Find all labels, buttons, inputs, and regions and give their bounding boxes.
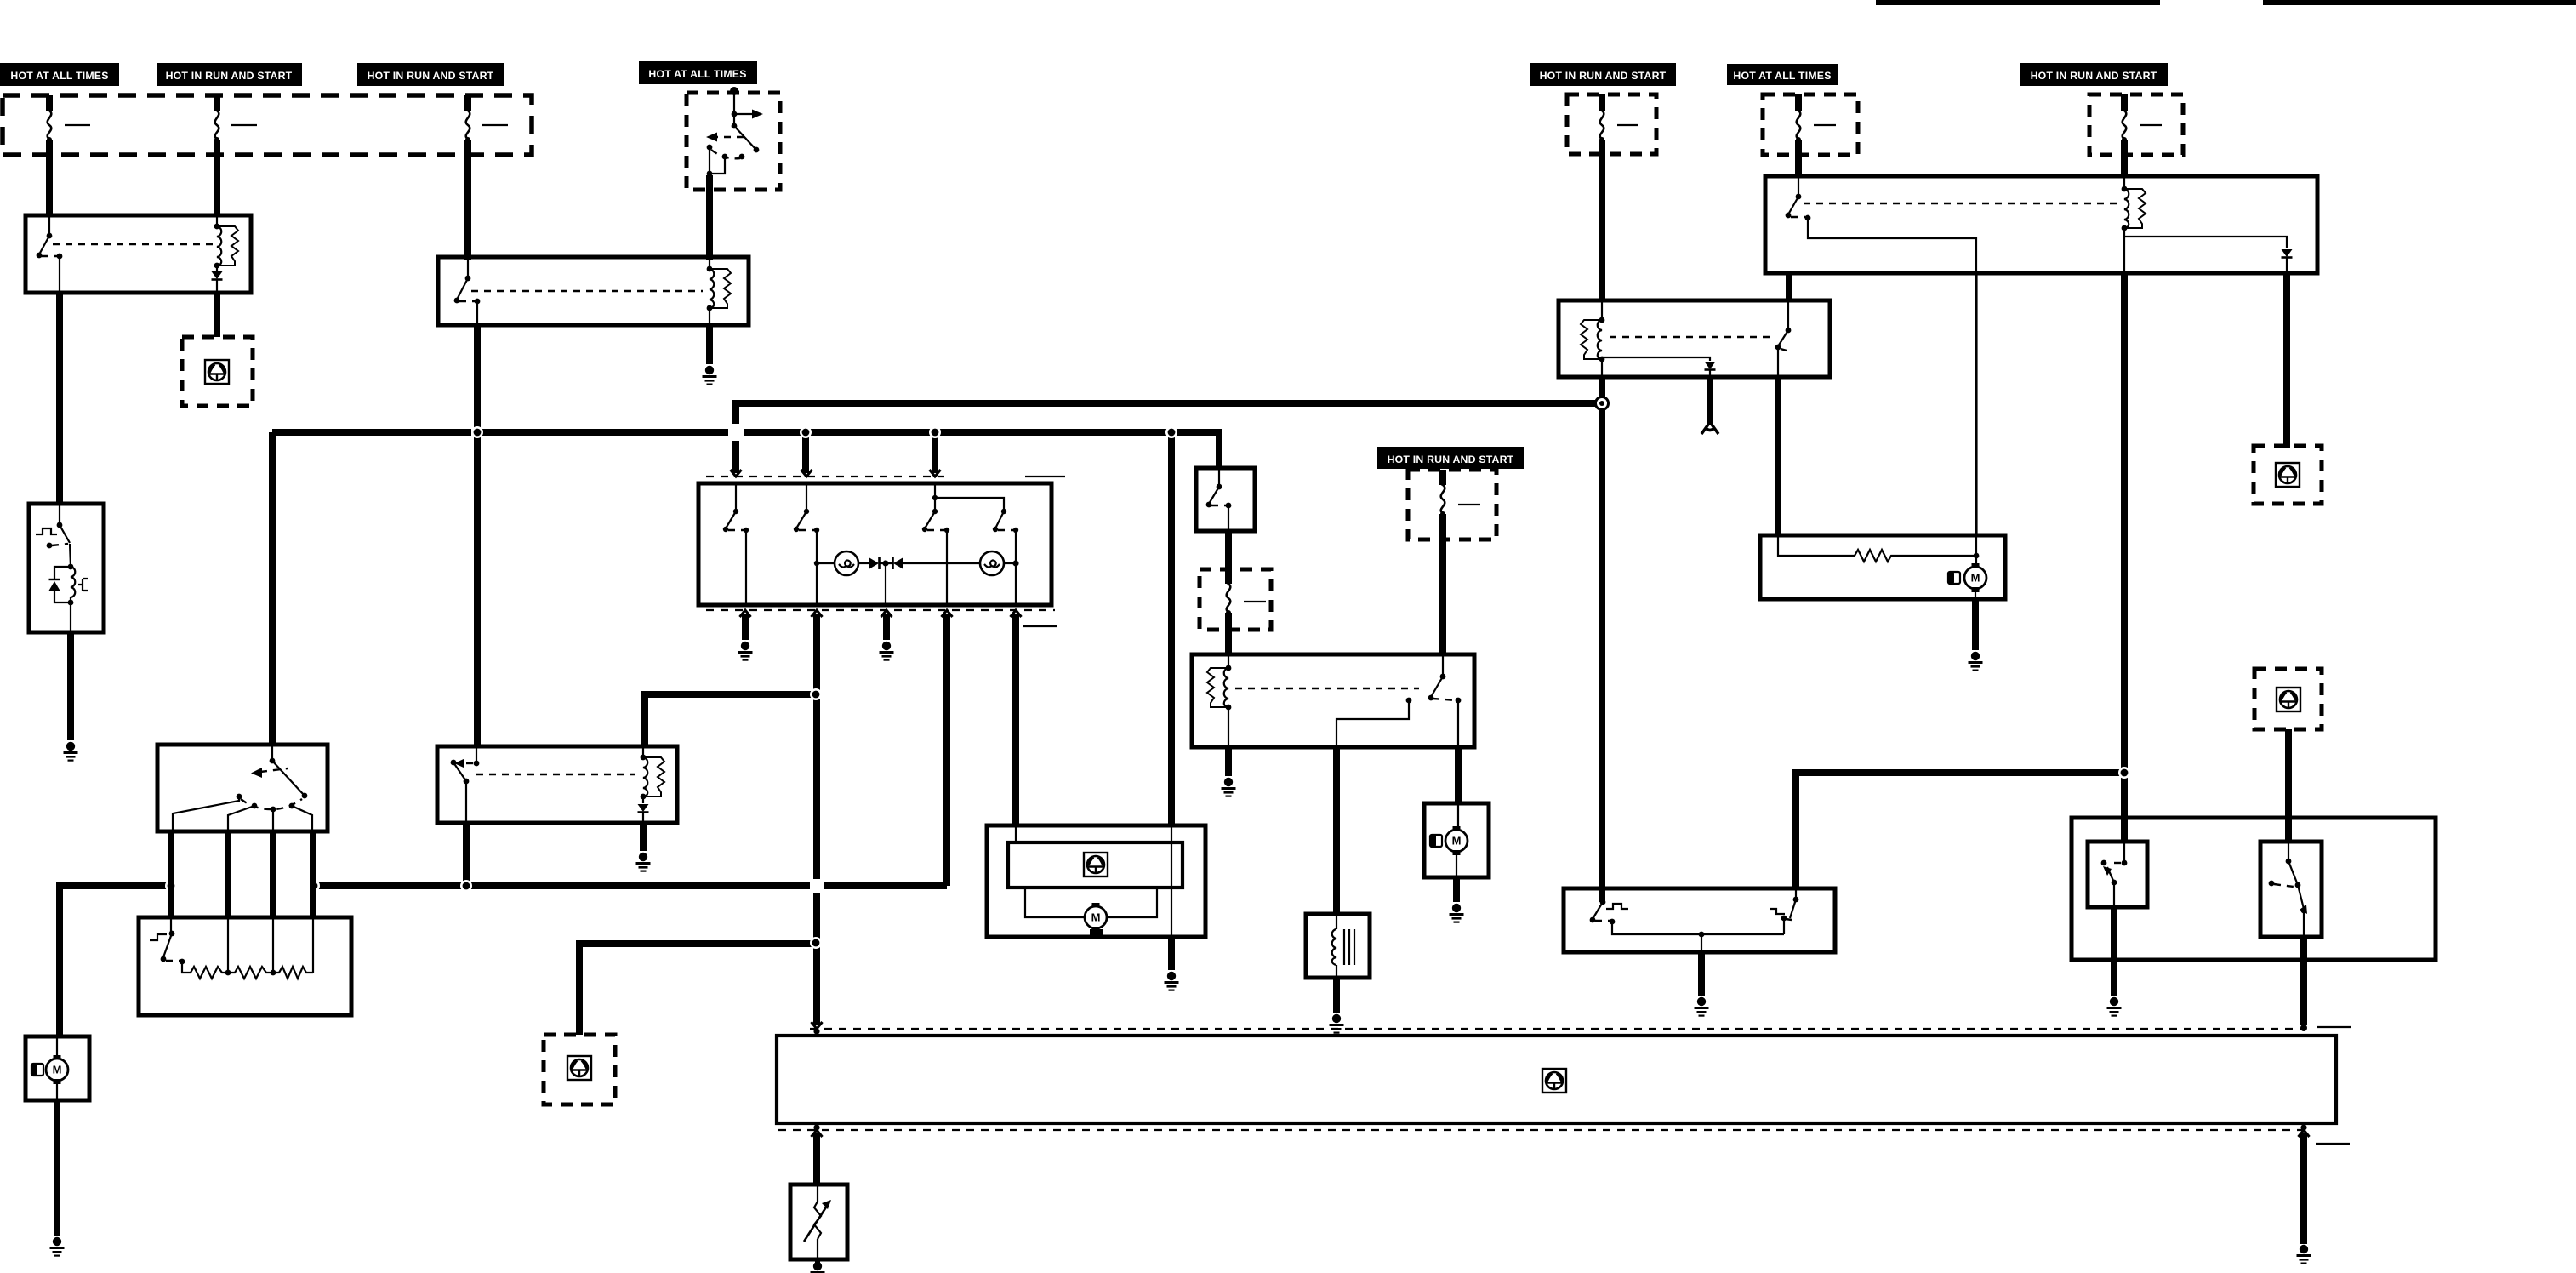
svg-text:HOT AT ALL TIMES: HOT AT ALL TIMES [1733, 70, 1831, 82]
wire K4 diode to splice arrow [1707, 377, 1713, 424]
connector symbol in lamp module [1084, 853, 1108, 876]
switch in K1 [37, 215, 63, 293]
coil of K4 (resistor on left) [1581, 300, 1604, 377]
wire bulkhead to ground (right) [2300, 1133, 2307, 1244]
fuse F8 (in-line dashed) [1200, 569, 1271, 630]
label HOT AT ALL TIMES (right) [1727, 64, 1838, 85]
dashed actuate link K2 [471, 290, 703, 292]
diode D2 (points left) [886, 557, 980, 569]
headlamp switch assembly box (right) [2072, 818, 2436, 960]
top pin header dashed line [706, 470, 1065, 477]
ground G14 [811, 1262, 825, 1273]
wire K4 coil to bus B1 junction (long) [1599, 377, 1605, 902]
junction B3 x201 [165, 880, 177, 892]
label HOT IN RUN AND START (left 2) [157, 63, 302, 86]
wire K2 coil to ground [706, 325, 713, 364]
svg-text:HOT IN RUN AND START: HOT IN RUN AND START [368, 70, 494, 82]
momentary switch in washer module [36, 504, 70, 548]
bullseye junction bus B1 / K4 wire [1596, 397, 1609, 410]
switch in governor module [451, 746, 480, 823]
title rule left [1876, 0, 2160, 5]
bottom pin header dashed line of turn box [706, 610, 1057, 626]
switch S2 in turn box [794, 483, 819, 605]
dashed actuate link governor [476, 774, 635, 775]
label line bulkhead lower right [2316, 1143, 2350, 1145]
wire fuse F7 to relay K3 switch [1439, 514, 1446, 654]
coil of K5 [2122, 176, 2293, 273]
fuse F4 (dashed box) [1567, 94, 1656, 154]
junction B3 x369 [308, 880, 320, 892]
ground G13 [2107, 997, 2122, 1017]
fuse F5 (dashed box) [1763, 94, 1858, 155]
inner panel of lamp module [1008, 842, 1183, 888]
ground G6 [50, 1237, 65, 1257]
bulkhead connector strip [777, 1036, 2336, 1123]
switch in K2 [454, 257, 481, 325]
wire solenoid to ground [1333, 978, 1340, 1013]
resistor run in wiper motor box [1778, 535, 1979, 567]
park/dome lamp module box (bottom left) [26, 1036, 89, 1100]
label HOT AT ALL TIMES (ignition) [639, 61, 757, 84]
feed stubs into lamp module [1016, 825, 1171, 937]
wire rotary sw out3 [270, 831, 276, 917]
wire fuse F6 to relay K5 coil [2121, 140, 2128, 176]
junction B3 x548 [460, 880, 472, 892]
bulkhead bottom dashed line [778, 1124, 2310, 1137]
ground G3 [738, 642, 753, 661]
wire fuse F5 to relay K5 switch [1795, 140, 1802, 176]
switch inside inner box 2 [2269, 842, 2307, 937]
junction on B2 at x947 [800, 426, 812, 438]
wire K3 to washer solenoid [1333, 747, 1340, 914]
title rule right [2263, 0, 2576, 5]
ignition switch dashed box [687, 87, 780, 190]
indicator lamp left [814, 551, 871, 575]
splice arrow symbol [1701, 422, 1718, 434]
diode branch of K4 [1602, 357, 1716, 377]
ground G8 [1222, 778, 1236, 797]
diode D1 (points right) [869, 557, 886, 569]
wire K3 to wiper park motor [1455, 747, 1462, 803]
motor in lamp module [1025, 888, 1157, 939]
pin marker at bulkhead top right [2300, 1025, 2351, 1031]
motor in wiper motor box [1948, 563, 1986, 599]
wire bulkhead to fuel sender [813, 1133, 820, 1185]
wire inner box2 to bulkhead connector [2300, 937, 2307, 1025]
switch in K5 [1786, 176, 1976, 273]
wire ignition to relay K2 coil [706, 190, 713, 260]
wire turn pin4 down to bus B3 [943, 614, 950, 886]
fuse F7 (below center label) [1408, 470, 1496, 539]
wire K5 diode to connector symbol [2283, 273, 2290, 448]
switch S3 in turn box [922, 483, 1004, 605]
washer solenoid box [1306, 914, 1370, 978]
wire turn pin2 down to bulkhead connector (long) [813, 614, 820, 1025]
wire brake box to ground [1698, 952, 1705, 996]
ground G11 [1969, 652, 1983, 671]
governor module box (intermittent wiper) [437, 746, 677, 823]
wiper motor assembly box (right) [1760, 535, 2005, 599]
wire connector box to pin2 wire [579, 944, 812, 1035]
switch S4 in turn box [993, 509, 1018, 605]
park motor box (center) [1424, 803, 1489, 877]
bus B2 (feed bus) [272, 432, 1219, 745]
svg-text:HOT AT ALL TIMES: HOT AT ALL TIMES [10, 70, 108, 82]
switch in K4 [1775, 300, 1792, 377]
wire K5 to relay K4 switch (stub) [1786, 273, 1792, 300]
wire K2 switch to governor module (long) [474, 325, 481, 746]
svg-text:HOT IN RUN AND START: HOT IN RUN AND START [1388, 454, 1514, 465]
connector symbol box (below dome line) [544, 1035, 615, 1105]
wire turn pin1 to ground [742, 614, 749, 640]
wire rotary sw out2 [225, 831, 231, 917]
wire inner box1 to ground [2111, 907, 2117, 996]
inner switch box 1 [2088, 842, 2147, 907]
wire fuel sender to ground [815, 1259, 820, 1264]
junction on B2 at x561 [471, 426, 483, 438]
wire K5 coil feed-through (long down) [2121, 273, 2128, 842]
junction on B2 at x1099 [929, 426, 941, 438]
relay K2 (center-left relay box) [438, 257, 749, 325]
wire park motor to ground [1453, 877, 1460, 902]
label HOT IN RUN AND START (right 2) [2020, 63, 2168, 86]
dashed actuate link K4 [1610, 336, 1775, 338]
wire K3 coil to ground [1225, 747, 1232, 776]
switch inside inner box 1 [2101, 842, 2128, 907]
wire switch box to fuse F8 [1225, 531, 1232, 584]
fuse F6 (dashed box) [2089, 94, 2183, 155]
washer pump module box [29, 504, 104, 632]
wire lamp module to ground [1168, 937, 1175, 970]
motor in bottom-left module [31, 1036, 68, 1100]
coil of K1 [212, 215, 239, 293]
connector symbol box SY1 [2254, 446, 2322, 504]
label HOT AT ALL TIMES (left) [0, 63, 119, 86]
connector symbol box SY2 [2254, 669, 2322, 729]
junction on pin2 wire at y1108 [810, 937, 822, 949]
bulkhead top dashed line [810, 1022, 2302, 1035]
dashed actuate link K3 [1235, 688, 1419, 689]
fuse F1 [47, 95, 90, 215]
wire fuse F8 to relay K3 [1225, 613, 1232, 654]
coil of K3 (resistor on left) [1207, 654, 1231, 747]
wire governor switch to bus B3 [463, 823, 470, 882]
ground G7 [1165, 972, 1179, 991]
relay K4 (lower right relay box) [1559, 300, 1830, 377]
svg-text:HOT IN RUN AND START: HOT IN RUN AND START [1540, 70, 1667, 82]
ground G2 [703, 366, 717, 385]
coil of K2 [707, 257, 731, 325]
wire bus B2 to interior lamp module (long) [1168, 432, 1175, 825]
junction on pin2 wire at y816 [810, 688, 822, 700]
inner switch box 2 [2260, 842, 2322, 937]
wire washer module to ground [67, 632, 74, 740]
left switch in brake box [1590, 888, 1784, 934]
washer/wiper mode switch box (in-line) [1196, 468, 1255, 531]
bus B5 (right feed bus) [1796, 773, 2124, 888]
relay K3 (wiper relay box) [1192, 654, 1474, 747]
ground G4 [880, 642, 894, 661]
label HOT IN RUN AND START (right 1) [1530, 63, 1676, 86]
wiper resistor module box [139, 917, 351, 1015]
fuel sender variable resistor box [790, 1185, 847, 1259]
switch S1 in turn box [723, 483, 749, 605]
wire turn pin3 to ground [883, 614, 890, 640]
ground G1 [64, 742, 78, 762]
ground G15 [2297, 1245, 2311, 1264]
ground G5 [636, 853, 651, 872]
label HOT IN RUN AND START (center) [1377, 447, 1524, 469]
wire wiper motor to ground [1972, 599, 1979, 650]
indicator lamp right [980, 551, 1019, 575]
wire bus B2 to turn box pin 2 [802, 432, 809, 473]
wire turn pin5 down to lamp module [1012, 614, 1019, 825]
turn signal / hazard switch box [698, 483, 1051, 605]
bus B1 (feed to turn box pin 1) [736, 403, 1602, 473]
fuse F2 [214, 95, 257, 215]
dashed actuate link K1 [53, 243, 213, 245]
svg-text:HOT AT ALL TIMES: HOT AT ALL TIMES [648, 68, 746, 80]
fuse block panel (dashed) [3, 95, 532, 155]
junction B5 on K5 feed wire [2118, 767, 2130, 779]
bus B4 (flasher feed branch) [645, 694, 815, 746]
wire bus B2 to turn box pin 4 [932, 432, 938, 473]
wire governor coil to ground [640, 823, 647, 851]
rotary switch internals [173, 745, 312, 831]
switch in K3 [1336, 654, 1461, 747]
dashed actuate link K5 [1804, 203, 2117, 204]
wire K4 switch to wiper motor [1775, 377, 1781, 535]
svg-text:HOT IN RUN AND START: HOT IN RUN AND START [2031, 70, 2157, 82]
brake/park switch box [1564, 888, 1835, 952]
label HOT IN RUN AND START (left 3) [357, 63, 504, 86]
ground G10 [1450, 904, 1464, 923]
fuse F3 [465, 95, 508, 260]
wire rotary sw out4 [310, 831, 316, 917]
bus B3 (wiper low-speed bus) [60, 886, 947, 1036]
wiper rotary switch box [157, 745, 328, 831]
ground G12 [1695, 997, 1709, 1017]
switch internals in-line box [1206, 468, 1232, 531]
connector symbol box (below K1) [182, 337, 253, 406]
resistor module internals [150, 917, 313, 979]
junction and drop wire between diodes [882, 560, 888, 605]
ground G9 [1330, 1014, 1344, 1034]
junction on B2 at x1377 [1165, 426, 1177, 438]
wire bottom-left module to ground [54, 1100, 60, 1236]
interior lamp module box (center) [987, 825, 1205, 937]
right switch in brake box [1699, 888, 1799, 952]
connector symbol in bulkhead strip [1542, 1069, 1566, 1093]
wire K1 coil to connector symbol [214, 293, 220, 337]
wire K5 switch to wiper motor [1975, 273, 1977, 535]
coil in governor module [638, 746, 665, 823]
wire fuse F4 to relay K4 coil [1599, 140, 1605, 300]
wire SY2 to headlamp switch box [2285, 729, 2292, 842]
wire rotary sw out1 [168, 831, 174, 917]
wire K1 switch to washer module [56, 293, 63, 504]
pump motor element in washer module [49, 544, 88, 632]
relay K1 (left relay box) [26, 215, 251, 293]
svg-text:HOT IN RUN AND START: HOT IN RUN AND START [166, 70, 293, 82]
relay K5 (large relay box top right) [1765, 176, 2317, 273]
